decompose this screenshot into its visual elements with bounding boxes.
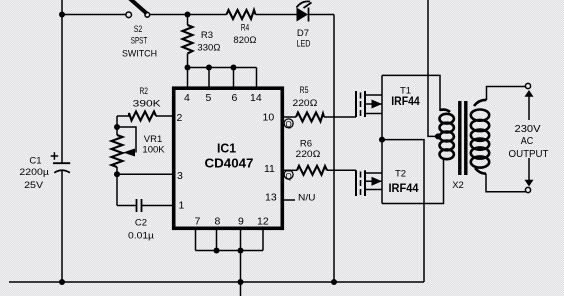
transformer X2 primary winding — [440, 110, 454, 160]
svg-text:9: 9 — [238, 216, 244, 228]
svg-text:220Ω: 220Ω — [293, 98, 318, 109]
pin 1 — [179, 200, 185, 212]
wire: left rail from C1 bottom to ground rail — [61, 171, 63, 283]
label R5 220ohm — [293, 85, 318, 109]
wire: mosfet common rail — [381, 75, 383, 203]
pin 9 — [238, 216, 244, 228]
svg-text:C2: C2 — [135, 218, 147, 229]
svg-text:R5: R5 — [300, 85, 309, 96]
svg-text:X2: X2 — [452, 180, 464, 191]
svg-text:VR1: VR1 — [144, 134, 162, 145]
node: ground rail / left rail — [59, 279, 65, 285]
svg-text:S2: S2 — [134, 24, 143, 35]
label 230V AC OUTPUT — [509, 123, 550, 160]
wire: IC pin 11 to R6 — [283, 169, 298, 171]
svg-text:11: 11 — [264, 163, 275, 175]
pin 11 — [264, 163, 275, 175]
svg-text:390K: 390K — [133, 98, 162, 109]
wire: ground rail — [9, 281, 424, 283]
wire: VR1 bottom to IC pin 3 — [117, 173, 172, 175]
pin 3 — [177, 170, 183, 182]
label S2 SPST SWITCH — [122, 24, 157, 60]
label Q — [285, 120, 291, 129]
label C1 2200u 25V — [19, 156, 49, 192]
node: junction on mosfet rail — [379, 137, 385, 143]
wire: IC pins 7,8,9,12 to ground bus — [196, 228, 264, 296]
label IRF44 T1 — [391, 94, 420, 108]
op-amp U1: IC1 CD4047 body — [174, 88, 283, 228]
pin 4 — [184, 92, 190, 104]
label R4 820ohm — [233, 22, 256, 46]
node: center tap junction — [435, 133, 441, 139]
label R3 330ohm — [197, 30, 220, 54]
label VR1 100K — [142, 134, 165, 156]
svg-text:LED: LED — [297, 38, 311, 49]
label Q-bar — [285, 171, 291, 181]
label N/U — [298, 192, 316, 203]
label IRF44 T2 — [389, 181, 419, 195]
svg-text:8: 8 — [215, 216, 221, 228]
svg-text:25V: 25V — [24, 180, 44, 191]
diode D7 LED — [297, 1, 312, 21]
svg-text:R3: R3 — [201, 30, 213, 41]
svg-text:IRF44: IRF44 — [391, 94, 420, 108]
label C2 0.01u — [128, 218, 155, 242]
wire: R4 to LED anode — [256, 14, 298, 16]
node: VR1 bottom junction — [114, 171, 120, 177]
wire: supply bus over IC pins 4,5,6,14 — [188, 68, 257, 88]
svg-text:IC1: IC1 — [217, 141, 236, 155]
node: R3 top junction — [185, 12, 191, 18]
wire: T1 drain loop to transformer primary top — [382, 75, 440, 111]
wire: secondary top to output terminal — [487, 87, 526, 101]
node: junction left rail / top rail — [59, 12, 65, 18]
resistor R5 220ohm horizontal — [296, 113, 324, 122]
svg-text:330Ω: 330Ω — [197, 43, 220, 54]
resistor R3 330ohm vertical — [183, 15, 193, 68]
transistor T2 IRF44 mosfet symbol — [356, 170, 382, 196]
wire: bottom loop to transformer primary bottom — [382, 158, 444, 204]
svg-text:AC: AC — [521, 135, 534, 147]
label R2 390K — [133, 86, 162, 109]
wire: +12V line from top to center tap — [428, 0, 437, 136]
capacitor C1 2200u 25V — [51, 152, 70, 173]
label T1 — [400, 86, 411, 97]
resistor R2 390K horizontal — [117, 112, 172, 121]
node: bus junction pin4 — [185, 65, 191, 71]
wire: IC pin 13 stub N/U — [283, 199, 296, 201]
svg-text:3: 3 — [177, 170, 183, 182]
output terminal top — [525, 83, 530, 88]
node: bus junction pin9 — [238, 248, 244, 254]
node: ground rail / LED line — [331, 279, 337, 285]
svg-text:6: 6 — [232, 92, 238, 104]
svg-text:Q: Q — [285, 172, 291, 181]
svg-text:10: 10 — [263, 112, 275, 124]
node: ground rail / IC ground drop — [238, 279, 244, 285]
svg-text:CD4047: CD4047 — [205, 157, 254, 171]
svg-text:N/U: N/U — [298, 192, 316, 203]
svg-text:T2: T2 — [395, 169, 406, 180]
wire: secondary bottom to output terminal — [486, 174, 526, 192]
wire: switch to R4, junction for R3 — [150, 14, 227, 16]
wire: mosfet rail junction to ground rail — [382, 140, 424, 282]
svg-text:2: 2 — [177, 112, 183, 124]
wire: LED cathode to right, down to ground rail — [309, 15, 335, 283]
label D7 LED — [297, 28, 311, 49]
svg-text:4: 4 — [184, 92, 190, 104]
pin 13 — [265, 192, 277, 204]
svg-text:R4: R4 — [241, 22, 250, 33]
svg-text:5: 5 — [206, 92, 212, 104]
svg-text:13: 13 — [265, 192, 277, 204]
node: bus junction pin5 — [206, 65, 212, 71]
svg-text:OUTPUT: OUTPUT — [509, 148, 550, 160]
svg-text:220Ω: 220Ω — [296, 149, 321, 160]
svg-text:0.01µ: 0.01µ — [128, 231, 155, 242]
transformer X2 secondary winding — [471, 100, 489, 174]
label X2 — [452, 180, 464, 191]
pin 2 — [177, 112, 183, 124]
node: bus junction pin6 — [231, 65, 237, 71]
pin 14 — [250, 92, 262, 104]
wire: R6 to T2 gate — [327, 169, 356, 171]
svg-text:SWITCH: SWITCH — [122, 48, 157, 59]
pin 7 — [195, 216, 201, 228]
svg-text:C1: C1 — [29, 156, 41, 167]
node: bus junction pin8 — [214, 248, 220, 254]
wire: top rail from left rail to switch — [62, 14, 127, 16]
potentiometer VR1 100K — [112, 127, 137, 174]
wire: IC pin 10 to R5 — [283, 116, 297, 118]
node: VR1 top junction — [114, 124, 120, 130]
pin 5 — [206, 92, 212, 104]
label IC1 CD4047 — [205, 141, 254, 170]
pin 8 — [215, 216, 221, 228]
capacitor C2 0.01u — [137, 199, 173, 212]
resistor R4 820ohm horizontal — [227, 10, 256, 19]
pin 10 — [263, 112, 275, 124]
wire: left rail down to C1 top plate — [61, 15, 63, 164]
svg-text:SPST: SPST — [131, 36, 148, 47]
wire: R2 left down to VR1 — [116, 116, 118, 135]
wire: R5 to T1 gate — [324, 116, 356, 118]
wire: +12V feed from top into left rail — [61, 0, 63, 15]
svg-text:14: 14 — [250, 92, 262, 104]
pin 12 — [257, 216, 269, 228]
node Q-bar output circle — [284, 170, 293, 179]
svg-text:12: 12 — [257, 216, 269, 228]
node Q output circle — [284, 119, 293, 128]
output arrow indicator — [525, 90, 534, 187]
svg-text:7: 7 — [195, 216, 201, 228]
resistor R6 220ohm horizontal — [297, 166, 327, 175]
pin 6 — [232, 92, 238, 104]
svg-text:820Ω: 820Ω — [233, 35, 256, 46]
wire: VR1 bottom down to C2 — [117, 174, 137, 205]
label T2 — [395, 169, 406, 180]
switch S2 SPST — [126, 0, 150, 18]
svg-text:100K: 100K — [142, 145, 165, 156]
svg-text:R2: R2 — [139, 86, 148, 97]
label R6 220ohm — [296, 139, 321, 160]
svg-text:Q: Q — [285, 120, 291, 129]
svg-text:IRF44: IRF44 — [389, 181, 419, 195]
svg-text:2200µ: 2200µ — [19, 167, 49, 178]
transformer X2 core — [460, 101, 466, 175]
svg-text:1: 1 — [179, 200, 185, 212]
output terminal bottom — [525, 187, 530, 192]
svg-text:230V: 230V — [515, 123, 541, 135]
transistor T1 IRF44 mosfet symbol — [356, 91, 382, 117]
